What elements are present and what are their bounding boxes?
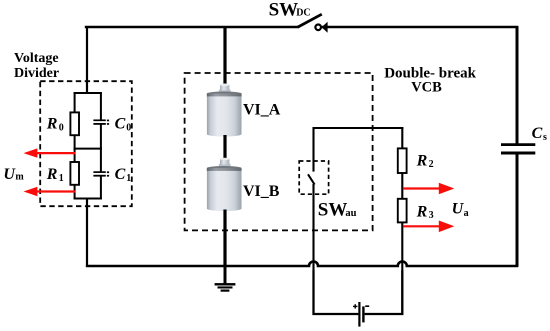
capacitor Cs bbox=[501, 145, 535, 153]
svg-text:3: 3 bbox=[429, 210, 434, 221]
wire R2-R3 node bbox=[401, 173, 403, 200]
wire R3 lower lead bbox=[401, 222, 403, 315]
svg-text:0: 0 bbox=[59, 122, 64, 133]
wire ground stub bbox=[224, 266, 227, 284]
wire right vertical (Cs to bottom bus) bbox=[516, 154, 519, 267]
svg-text:C: C bbox=[532, 125, 543, 142]
capacitor C0 bbox=[93, 120, 109, 125]
battery negative plate bbox=[362, 306, 364, 322]
wire battery to R3 branch (right leg) bbox=[365, 270, 403, 314]
resistor R3 bbox=[398, 199, 407, 223]
svg-text:SW: SW bbox=[269, 0, 299, 20]
svg-text:C: C bbox=[115, 116, 126, 133]
svg-text:R: R bbox=[416, 203, 428, 220]
wire R0 leads bbox=[74, 92, 76, 113]
svg-text:m: m bbox=[15, 172, 24, 183]
svg-text:2: 2 bbox=[429, 159, 434, 170]
svg-text:1: 1 bbox=[126, 173, 131, 184]
svg-text:0: 0 bbox=[126, 122, 131, 133]
svg-text:R: R bbox=[46, 166, 58, 183]
svg-text:R: R bbox=[46, 116, 58, 133]
wire VI_A to VI_B bbox=[223, 135, 226, 160]
svg-text:1: 1 bbox=[59, 173, 64, 184]
switch SWau blade bbox=[308, 174, 315, 184]
wire VI_B to bottom bus bbox=[223, 210, 226, 268]
svg-text:DC: DC bbox=[296, 7, 310, 18]
dashed box SWau bbox=[299, 161, 328, 194]
svg-text:C: C bbox=[115, 166, 126, 183]
svg-text:VCB: VCB bbox=[411, 80, 442, 96]
svg-text:a: a bbox=[464, 208, 469, 219]
capacitor C1 bbox=[93, 171, 109, 176]
wire divider top tee bbox=[74, 92, 102, 94]
dashed box double-break VCB bbox=[185, 73, 373, 230]
wire auxiliary top (SWau to R2 branch) bbox=[313, 127, 404, 129]
svg-text:VI_A: VI_A bbox=[243, 102, 281, 119]
switch SW_DC bbox=[297, 14, 327, 33]
vacuum interrupter VI_A bbox=[207, 84, 242, 137]
resistor R1 bbox=[70, 162, 79, 185]
wire C1 leads bbox=[100, 148, 102, 172]
wire divider bottom tee bbox=[74, 198, 102, 200]
wire divider mid node bbox=[74, 148, 102, 150]
wire C0 leads bbox=[100, 92, 102, 120]
wire left vertical (divider to bottom bus) bbox=[86, 199, 88, 268]
wire top bus bbox=[86, 27, 298, 28]
svg-text:VI_B: VI_B bbox=[243, 183, 280, 200]
svg-text:R: R bbox=[416, 152, 428, 169]
wire R1 leads bbox=[74, 148, 76, 163]
svg-text:Divider: Divider bbox=[14, 66, 59, 81]
wire SWau to battery (left leg) bbox=[314, 270, 359, 314]
wire SWau lower lead bbox=[312, 184, 314, 315]
ground bbox=[215, 283, 236, 292]
svg-text:SW: SW bbox=[318, 200, 348, 221]
svg-text:Voltage: Voltage bbox=[14, 51, 59, 66]
dashed box voltage divider bbox=[40, 81, 132, 206]
wire SWau upper lead bbox=[312, 127, 314, 172]
svg-text:s: s bbox=[543, 132, 547, 143]
wire right vertical (top bus to Cs) bbox=[516, 26, 519, 144]
battery positive plate bbox=[358, 302, 360, 327]
probe arrow Ua top bbox=[403, 183, 454, 195]
wire R2 upper lead bbox=[401, 127, 403, 149]
svg-text:au: au bbox=[345, 208, 356, 219]
probe arrow Um top (node between R0 and R1) bbox=[24, 148, 76, 157]
wire top bus right of SW_DC bbox=[322, 26, 518, 28]
probe arrow Um bottom (divider bottom node) bbox=[24, 187, 76, 196]
wire left vertical (top bus to divider) bbox=[86, 26, 88, 94]
wire bottom bus with crossover hops bbox=[86, 262, 518, 267]
wire middle vertical (top bus to VI_A) bbox=[223, 26, 226, 86]
resistor R2 bbox=[398, 148, 407, 173]
resistor R0 bbox=[70, 112, 79, 135]
battery minus sign bbox=[365, 305, 369, 307]
vacuum interrupter VI_B bbox=[207, 158, 242, 211]
probe arrow Ua bottom bbox=[403, 221, 454, 233]
battery plus sign bbox=[353, 304, 357, 308]
